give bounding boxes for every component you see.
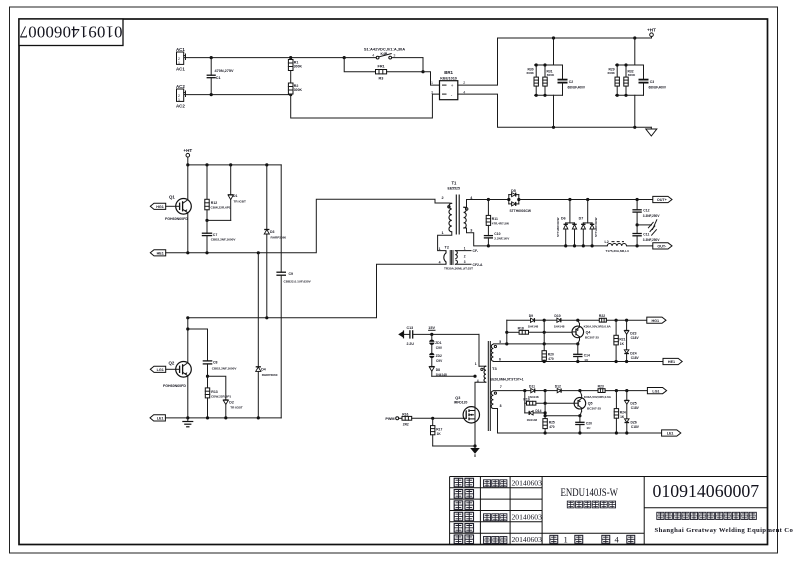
zener DZ4	[624, 350, 639, 362]
capacitor C8	[186, 327, 237, 376]
capacitor C9	[276, 165, 311, 418]
svg-text:C13: C13	[407, 326, 414, 330]
svg-text:C11: C11	[643, 232, 649, 236]
core	[455, 195, 457, 235]
svg-text:KBU1010: KBU1010	[440, 77, 457, 81]
node PWM input	[385, 417, 402, 421]
svg-text:D4: D4	[261, 368, 266, 372]
svg-text:PWM: PWM	[385, 417, 394, 421]
svg-text:+HT: +HT	[183, 148, 192, 153]
svg-text:Q1: Q1	[169, 195, 175, 200]
connector AC2	[176, 84, 186, 109]
svg-text:D3: D3	[270, 230, 275, 234]
svg-text:D2: D2	[229, 400, 234, 404]
svg-text:1N4148: 1N4148	[554, 324, 565, 328]
bridge rectifier BR1	[431, 70, 465, 100]
svg-text:2: 2	[442, 196, 444, 200]
wire rail after D5	[519, 199, 653, 201]
svg-text:T1: T1	[452, 180, 458, 185]
svg-text:Q3: Q3	[455, 396, 460, 400]
svg-text:680UF,400V: 680UF,400V	[649, 86, 667, 90]
wire AC1 line	[184, 57, 344, 59]
connector LG1 (Q2 gate)	[150, 366, 176, 372]
svg-text:K30A,50V,0R5,0.6A: K30A,50V,0R5,0.6A	[584, 395, 612, 399]
ground chassis symbol	[637, 220, 657, 235]
svg-text:D5: D5	[511, 189, 516, 193]
node 15V input terminal	[398, 330, 410, 338]
diode D9	[528, 314, 545, 328]
diode D6 (dual, freewheel)	[556, 200, 577, 246]
svg-text:4: 4	[372, 53, 374, 57]
resistor R31	[543, 65, 555, 95]
secondary pin4 exit	[464, 200, 489, 208]
svg-text:47R,4R7,5W: 47R,4R7,5W	[492, 222, 509, 226]
node junction C1 bottom	[210, 93, 213, 96]
svg-text:EE5525: EE5525	[448, 186, 461, 190]
wire BR1 pin2 to +HT rail	[458, 38, 652, 85]
svg-text:DZ3: DZ3	[630, 331, 636, 335]
svg-text:+HT: +HT	[647, 28, 656, 33]
svg-text:1K: 1K	[437, 432, 442, 436]
svg-text:R3: R3	[379, 76, 384, 80]
zener DZ6	[625, 419, 640, 433]
zener ZD1	[429, 334, 443, 349]
svg-text:C7: C7	[213, 233, 218, 237]
svg-text:C2: C2	[569, 80, 573, 84]
svg-text:CBB22,0.1UF,630V: CBB22,0.1UF,630V	[284, 279, 312, 283]
node junction R11 top	[487, 198, 490, 201]
svg-text:300K: 300K	[294, 65, 303, 69]
svg-text:R13: R13	[211, 390, 217, 394]
svg-text:L2: L2	[605, 240, 609, 244]
svg-text:C10: C10	[494, 232, 500, 236]
diode D7 (dual, freewheel)	[579, 200, 598, 246]
capacitor C7	[202, 220, 237, 252]
capacitor C10	[484, 232, 510, 246]
svg-text:STTH6003CW: STTH6003CW	[556, 217, 560, 237]
transformer T3	[475, 334, 524, 431]
drawing number box (rotated)	[19, 19, 123, 46]
connector LE1 (drive output)	[662, 430, 681, 436]
svg-text:D10: D10	[554, 314, 560, 318]
zener ZD2	[429, 345, 443, 363]
svg-text:3: 3	[464, 260, 466, 264]
node junction rail bottom 2	[633, 126, 636, 129]
svg-text:3: 3	[393, 53, 395, 57]
ground symbol (Q2 emitter)	[182, 418, 193, 427]
svg-text:600K: 600K	[608, 71, 616, 75]
wire BR1 pin4 to DC- rail	[458, 94, 652, 127]
wire secondary bottom rail	[488, 245, 607, 247]
wire Q2 emitter GND node	[165, 417, 281, 419]
transformer T1	[438, 180, 489, 250]
svg-text:C14: C14	[584, 353, 590, 357]
node junctions block2	[616, 63, 619, 66]
svg-text:AC1: AC1	[176, 67, 185, 72]
svg-text:3.3NF,250V: 3.3NF,250V	[643, 238, 661, 242]
diode D3	[264, 165, 286, 318]
svg-text:470: 470	[549, 425, 555, 429]
capacitor C13	[407, 326, 480, 346]
wire mid vertical	[544, 391, 546, 416]
svg-text:TR IGBT: TR IGBT	[230, 406, 242, 410]
diode D12	[545, 384, 580, 392]
svg-text:6: 6	[499, 357, 501, 361]
svg-text:TR IGBT: TR IGBT	[234, 199, 246, 203]
svg-text:EE26,6MH,9T:9T:9T+1: EE26,6MH,9T:9T:9T+1	[490, 378, 524, 382]
svg-text:3.3NF,250V: 3.3NF,250V	[643, 214, 661, 218]
node +HT terminal (Q1)	[183, 148, 192, 165]
svg-text:T2: T2	[445, 246, 449, 250]
node junction rail top 1	[552, 36, 555, 39]
svg-text:ENDU140JS-W: ENDU140JS-W	[561, 485, 619, 499]
title block row labels (Chinese)	[454, 478, 473, 543]
svg-text:1N4148: 1N4148	[528, 324, 539, 328]
node +HT terminal	[647, 28, 656, 38]
svg-text:010914060007: 010914060007	[19, 22, 122, 41]
connector HE1 (Q1 emitter)	[150, 250, 165, 256]
svg-text:CF2-A: CF2-A	[473, 263, 484, 267]
capacitor C12	[632, 200, 660, 225]
svg-text:AC1: AC1	[176, 47, 185, 52]
svg-text:STTH6003CW: STTH6003CW	[510, 209, 532, 213]
capacitor C2	[558, 65, 586, 95]
resistor FR1	[344, 58, 423, 81]
wire Q1 top node	[188, 164, 281, 166]
connector OUT+	[653, 196, 672, 202]
diode D2	[208, 376, 243, 418]
connector AC1	[176, 47, 186, 72]
svg-text:DZ5: DZ5	[630, 401, 636, 405]
svg-text:15V: 15V	[428, 326, 435, 330]
svg-text:TR30A,30ML,9T:25T: TR30A,30ML,9T:25T	[444, 266, 473, 270]
transistor Q5	[574, 391, 601, 416]
inductor L2	[605, 240, 653, 253]
svg-text:K4B: K4B	[381, 52, 388, 56]
svg-text:+: +	[451, 83, 454, 88]
svg-text:CBB2,2NF,1600V: CBB2,2NF,1600V	[212, 366, 238, 370]
svg-text:RHRP3060: RHRP3060	[262, 373, 278, 377]
svg-text:ZD1: ZD1	[435, 341, 441, 345]
svg-text:R21: R21	[619, 337, 625, 341]
svg-text:1: 1	[442, 231, 444, 235]
svg-text:C18V: C18V	[631, 406, 640, 410]
transistor Q3 MOSFET	[454, 396, 480, 446]
node junction relay/FR1	[421, 70, 424, 73]
wire left riser	[506, 320, 508, 344]
svg-text:600K: 600K	[527, 71, 535, 75]
svg-text:680UF,400V: 680UF,400V	[568, 86, 586, 90]
resistor R18	[507, 326, 572, 334]
svg-text:2.2NF,1KV: 2.2NF,1KV	[494, 236, 510, 240]
svg-text:010914060007: 010914060007	[652, 481, 759, 501]
resistor R22	[578, 314, 647, 329]
connector LG1 (drive output)	[647, 388, 666, 394]
node junction rail bottom 1	[552, 126, 555, 129]
connector OUT-	[653, 243, 672, 249]
wire AC2 line	[184, 94, 291, 96]
svg-text:R12: R12	[211, 201, 217, 205]
secondary winding	[464, 207, 467, 228]
svg-text:470: 470	[548, 357, 554, 361]
resistor R21	[614, 320, 626, 361]
svg-text:LG1: LG1	[652, 389, 659, 393]
svg-text:C9: C9	[289, 272, 294, 276]
svg-text:1: 1	[564, 534, 568, 544]
svg-text:C20: C20	[586, 421, 592, 425]
svg-text:R24: R24	[620, 411, 626, 415]
svg-text:3: 3	[470, 228, 472, 232]
svg-text:20140603: 20140603	[512, 535, 543, 544]
svg-text:BR1: BR1	[444, 70, 453, 75]
svg-text:7: 7	[500, 385, 502, 389]
node junction C1 top	[210, 56, 213, 59]
svg-text:HE1: HE1	[668, 360, 675, 364]
svg-text:D9: D9	[529, 314, 533, 318]
svg-text:1: 1	[178, 61, 180, 65]
svg-text:RHRP3060: RHRP3060	[271, 235, 287, 239]
svg-text:D8: D8	[436, 368, 440, 372]
svg-text:T3: T3	[492, 366, 497, 371]
svg-text:R20: R20	[548, 352, 554, 356]
wire secondary top rail	[488, 199, 508, 201]
svg-text:D1: D1	[233, 194, 238, 198]
svg-text:CF-: CF-	[473, 249, 479, 253]
svg-text:ZD2: ZD2	[436, 354, 442, 358]
svg-text:600K: 600K	[628, 73, 636, 77]
svg-text:LG1: LG1	[157, 368, 164, 372]
primary winding	[449, 203, 452, 232]
wire pin7 top rail	[493, 390, 530, 392]
diode D4 (clamp)	[256, 253, 278, 418]
svg-text:C18V: C18V	[631, 336, 640, 340]
resistor R11	[486, 200, 509, 236]
svg-text:C1: C1	[216, 76, 221, 80]
primary pin1 exit to T2	[438, 232, 452, 251]
svg-text:LE1: LE1	[667, 432, 674, 436]
resistor R1	[288, 58, 302, 83]
svg-text:AC2: AC2	[176, 84, 185, 89]
svg-text:Shanghai Greatway Welding Equi: Shanghai Greatway Welding Equipment Co.,…	[655, 527, 793, 534]
node junctions block1	[535, 63, 538, 66]
ground symbol (Q3 source)	[470, 446, 480, 457]
svg-text:4: 4	[615, 534, 620, 544]
svg-text:2: 2	[464, 255, 466, 259]
svg-text:FR1: FR1	[378, 65, 385, 69]
transistor Q1	[165, 165, 191, 253]
svg-text:HE1: HE1	[157, 252, 164, 256]
svg-text:CBW,22R,6P1: CBW,22R,6P1	[211, 395, 231, 399]
svg-text:FGH60N60FD: FGH60N60FD	[165, 217, 188, 221]
wire to bridge pin1	[423, 72, 440, 85]
wire Q2 collector node	[188, 264, 446, 318]
node 15V power flag	[428, 326, 435, 330]
svg-text:D14: D14	[535, 409, 541, 413]
capacitor C14	[573, 344, 590, 362]
secondary pin3 exit	[464, 228, 489, 246]
svg-text:1N4148: 1N4148	[527, 418, 538, 422]
diode D10	[544, 314, 578, 328]
node junction rail top 2	[633, 36, 636, 39]
svg-text:D7: D7	[579, 217, 584, 221]
svg-text:STTH6003CW: STTH6003CW	[594, 217, 598, 237]
svg-text:C8: C8	[213, 360, 218, 364]
svg-text:K30A,50V,0R5,0.6A: K30A,50V,0R5,0.6A	[584, 325, 612, 329]
capacitor C1	[207, 58, 234, 95]
svg-text:C12: C12	[643, 209, 649, 213]
svg-text:C9V: C9V	[436, 359, 443, 363]
T3 core	[487, 341, 489, 431]
svg-text:3: 3	[431, 90, 433, 94]
T3 secondary bottom winding	[491, 391, 493, 409]
wire pin5 line	[493, 343, 577, 345]
svg-text:OUT+: OUT+	[657, 198, 667, 202]
wire top rail start	[507, 319, 531, 321]
svg-text:1: 1	[178, 98, 180, 102]
transistor Q4	[572, 320, 599, 344]
svg-text:R25: R25	[549, 420, 555, 424]
svg-text:T175,30A,M6,L3: T175,30A,M6,L3	[606, 249, 629, 253]
schematic name (Chinese)	[567, 501, 615, 508]
svg-text:8: 8	[500, 404, 502, 408]
T3 secondary top winding	[491, 344, 493, 361]
svg-text:C3: C3	[650, 80, 654, 84]
svg-text:Q4: Q4	[586, 330, 591, 334]
page row	[550, 534, 635, 544]
svg-text:1: 1	[439, 247, 441, 251]
designer names (Chinese)	[484, 480, 507, 544]
svg-text:BC307-25: BC307-25	[585, 335, 599, 339]
resistor R30	[527, 65, 539, 95]
resistor R2	[288, 83, 302, 95]
svg-text:CBB2,2NF,1600V: CBB2,2NF,1600V	[211, 238, 237, 242]
resistor R17	[431, 418, 476, 446]
svg-text:1: 1	[464, 247, 466, 251]
svg-text:S1:A42VDC,0/1:A,30A: S1:A42VDC,0/1:A,30A	[364, 47, 405, 52]
svg-text:470N,275V: 470N,275V	[215, 69, 234, 73]
svg-text:OUT-: OUT-	[657, 245, 667, 249]
connector HG1 (drive output)	[647, 317, 666, 323]
svg-text:C18V: C18V	[631, 425, 640, 429]
zener DZ3	[624, 320, 639, 350]
diode D1	[207, 165, 246, 221]
svg-text:1: 1	[431, 81, 433, 85]
wire zener chain to drain node	[432, 375, 475, 377]
svg-text:R19: R19	[523, 398, 529, 402]
resistor R12	[205, 165, 231, 221]
svg-text:600K: 600K	[547, 73, 555, 77]
svg-text:20140603: 20140603	[512, 478, 543, 487]
svg-text:FGH60N60FD: FGH60N60FD	[163, 384, 186, 388]
wire block1 frame	[535, 38, 563, 127]
wire Q1 emitter node to T1 pin2	[166, 199, 449, 253]
svg-text:C18V: C18V	[631, 356, 640, 360]
svg-text:Q5: Q5	[588, 402, 593, 406]
svg-text:4: 4	[439, 261, 441, 265]
svg-text:2R2: 2R2	[403, 422, 409, 426]
svg-text:R23: R23	[598, 384, 604, 388]
wire drive2 bottom rail	[493, 409, 661, 434]
wire drive1 bottom rail	[493, 361, 663, 363]
capacitor C20	[575, 416, 592, 433]
company name (Chinese)	[657, 512, 757, 519]
svg-text:LE1: LE1	[157, 417, 164, 421]
diode D14 (reverse)	[525, 409, 545, 422]
resistor R23	[580, 384, 648, 399]
svg-text:D6: D6	[561, 217, 566, 221]
ground symbol DC-	[646, 127, 657, 136]
svg-text:IRFD120: IRFD120	[454, 400, 468, 404]
capacitor C3	[639, 65, 667, 95]
connector LE1 (Q2 emitter)	[150, 415, 165, 421]
svg-text:C9V: C9V	[436, 346, 443, 350]
svg-text:300K: 300K	[294, 88, 303, 92]
node junction R2 bottom	[289, 93, 292, 96]
resistor R24	[614, 391, 626, 433]
resistor R25	[543, 416, 555, 433]
svg-text:20140603: 20140603	[512, 512, 543, 521]
svg-text:Q2: Q2	[169, 360, 175, 365]
resistor R20	[542, 320, 554, 361]
zener DZ5	[625, 391, 640, 419]
connector HE1 (drive output)	[663, 358, 682, 364]
svg-text:AC2: AC2	[176, 104, 185, 109]
wire collector link	[545, 415, 580, 417]
connector HG1 (Q1 gate)	[150, 203, 176, 209]
diode D11	[528, 384, 545, 398]
svg-text:D12: D12	[555, 384, 561, 388]
relay contact K4B S1	[344, 47, 423, 72]
wire neutral return detour	[291, 94, 440, 118]
svg-text:R16: R16	[402, 412, 408, 416]
resistor R13	[205, 376, 231, 418]
resistor R19	[523, 391, 574, 413]
wire block2 frame	[616, 38, 644, 127]
resistor R16	[402, 412, 463, 426]
transformer T2	[439, 246, 483, 271]
diode D4 output (dual STTH6003CW)	[509, 189, 532, 213]
svg-text:1: 1	[475, 362, 477, 366]
transistor Q2	[163, 318, 191, 418]
svg-text:R17: R17	[436, 427, 442, 431]
svg-text:CBW,22R,6P1: CBW,22R,6P1	[211, 206, 231, 210]
T3 primary winding	[478, 334, 480, 366]
svg-text:R22: R22	[599, 314, 605, 318]
capacitor C11	[632, 225, 660, 246]
svg-text:HG1: HG1	[156, 205, 164, 209]
svg-text:BC307-25: BC307-25	[587, 407, 601, 411]
node junction R1 top	[289, 56, 292, 59]
node junction switch split	[343, 56, 346, 59]
svg-text:DZ6: DZ6	[631, 420, 637, 424]
svg-text:DZ4: DZ4	[630, 351, 636, 355]
svg-text:2.2U: 2.2U	[407, 342, 415, 346]
resistor R29	[608, 65, 620, 95]
svg-text:HG1: HG1	[652, 319, 660, 323]
svg-text:R11: R11	[492, 217, 498, 221]
resistor R32	[624, 65, 636, 95]
svg-text:1K: 1K	[620, 342, 625, 346]
diode D8	[429, 358, 447, 377]
svg-text:R18: R18	[518, 326, 524, 330]
svg-text:D11: D11	[529, 384, 535, 388]
